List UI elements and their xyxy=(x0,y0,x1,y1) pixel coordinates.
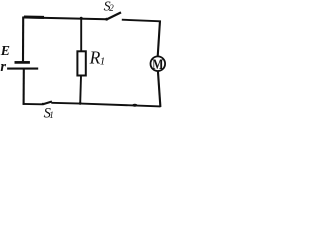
switch S1 pivot xyxy=(42,103,44,105)
wire: left vertical upper (corner down to battery) xyxy=(22,17,24,62)
wire: right vertical lower (bottom-right corner up to motor) xyxy=(158,71,161,107)
wire: left vertical lower (battery down to bottom-left corner) xyxy=(23,70,25,105)
switch S1 blade xyxy=(43,102,52,105)
wire: bottom middle segment (S1 to R1 junction to bottom-right corner) xyxy=(51,103,160,107)
wire: R1 branch lower xyxy=(79,76,82,104)
svg-text:S1: S1 xyxy=(44,106,54,120)
svg-text:R1: R1 xyxy=(89,47,106,67)
wire: right vertical upper (top-right corner down to motor) xyxy=(158,21,160,57)
wire: bottom left segment (corner to S1 pivot) xyxy=(23,103,43,105)
thick segment of top wire after corner xyxy=(24,16,44,19)
svg-text:S2: S2 xyxy=(104,0,115,14)
wire: top wire left segment (battery + to S2 pivot) xyxy=(23,17,106,19)
svg-text:E: E xyxy=(0,43,10,58)
switch S2 blade xyxy=(107,12,122,19)
battery E r : short thick plate (top) xyxy=(15,61,30,64)
scan blob on bottom wire xyxy=(132,104,137,107)
wire: R1 branch upper xyxy=(80,18,82,51)
resistor R1 box xyxy=(77,51,85,75)
svg-text:M: M xyxy=(152,57,163,73)
wire: top right segment (S2 to top-right corner) xyxy=(122,20,161,22)
battery E r : long plate (bottom) xyxy=(7,68,38,70)
junction: R1 top node xyxy=(80,17,83,20)
svg-text:r: r xyxy=(0,59,6,75)
switch S2 pivot xyxy=(105,18,108,21)
motor M circle xyxy=(151,56,166,71)
junction: R1 bottom node xyxy=(79,102,82,105)
